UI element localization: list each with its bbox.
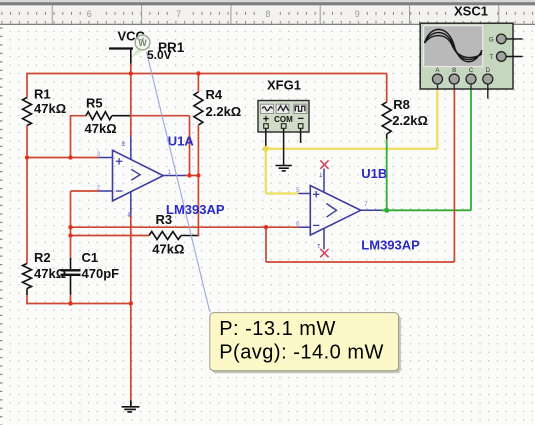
svg-text:47kΩ: 47kΩ — [85, 121, 117, 136]
wire: XFG1 COM lead — [283, 128, 285, 165]
wire: U1B plus input pin — [299, 193, 311, 195]
wire: green vertical to XSC1 C — [470, 89, 472, 210]
svg-text:R1: R1 — [34, 87, 51, 102]
pin 4 power glyph — [128, 213, 131, 217]
wire: yellow XFG plus to XSC1 A — [266, 148, 438, 150]
wire: bottom rail — [26, 303, 131, 305]
op-amp U1B — [310, 166, 420, 252]
junction: U1B output node green — [384, 208, 389, 213]
svg-text:3: 3 — [97, 151, 101, 158]
function generator XFG1 — [258, 78, 309, 133]
wire: minus input of U1A — [71, 190, 99, 192]
junction: VCC stem to top rail — [129, 71, 133, 75]
svg-text:2: 2 — [97, 185, 101, 192]
wire: left vertical upper — [27, 73, 98, 75]
unconnected pin x mark top — [320, 160, 328, 168]
svg-text:47kΩ: 47kΩ — [152, 241, 184, 256]
wire: left vertical mid — [26, 126, 28, 264]
junction: R5 branch at plus rail — [68, 155, 72, 159]
svg-text:P(avg): -14.0 mW: P(avg): -14.0 mW — [219, 342, 384, 364]
svg-text:5.0V: 5.0V — [147, 48, 172, 62]
svg-text:8: 8 — [265, 9, 270, 19]
wire: U1A pin 8 stub — [130, 136, 132, 160]
wire: yellow vertical to XSC1 A — [436, 89, 438, 149]
svg-text:C: C — [469, 67, 474, 74]
svg-text:P: -13.1 mW: P: -13.1 mW — [219, 318, 336, 340]
junction: U1A output with R4 pull-up — [196, 173, 200, 177]
pin 8 glyph — [320, 173, 323, 177]
svg-text:7: 7 — [176, 9, 181, 19]
oscilloscope XSC1 — [420, 4, 522, 89]
wire: left vertical lower to bottom rail — [26, 295, 28, 304]
pin 8 power glyph — [122, 142, 125, 146]
wire: minus bus upper horizontal — [71, 226, 299, 228]
probe PR1 — [131, 35, 185, 62]
svg-text:2.2kΩ: 2.2kΩ — [206, 104, 242, 119]
resistor R4 — [194, 74, 241, 126]
junction: minus bus to XSC1 B loop — [264, 225, 268, 229]
tooltip power readout — [210, 313, 401, 374]
wire: red vertical up to minus bus — [265, 227, 267, 262]
svg-text:47kΩ: 47kΩ — [34, 266, 66, 281]
wire: top rail — [27, 73, 387, 75]
junction: R4 top at rail — [196, 71, 200, 75]
ground symbol XFG1 — [276, 166, 292, 171]
svg-text:2.2kΩ: 2.2kΩ — [392, 113, 428, 128]
svg-text:U1B: U1B — [361, 166, 387, 181]
pin 4 glyph — [318, 245, 321, 249]
junction: U1A output with R5 feedback — [187, 173, 191, 177]
junction: R3 branch left — [68, 233, 72, 237]
resistor R8 — [382, 74, 428, 140]
wire: C1 bottom lead red — [70, 295, 72, 304]
wire: U1A pin 4 stub — [130, 192, 132, 216]
svg-text:COM: COM — [274, 115, 293, 124]
wire: VCC stem red to top rail — [130, 64, 132, 74]
wire: U1A plus input pin — [99, 157, 113, 159]
wire: U1A output pin — [163, 175, 185, 177]
wire: R3 branch lower horizontal — [71, 235, 150, 237]
junction: XFG1 plus node yellow — [263, 146, 269, 152]
svg-text:R2: R2 — [34, 250, 51, 265]
op-amp U1A — [113, 133, 225, 217]
ground symbol main — [122, 401, 140, 412]
wire: minus node vertical — [70, 191, 72, 258]
svg-text:LM393AP: LM393AP — [361, 237, 420, 252]
wire: red XSC1 B horizontal — [266, 261, 454, 263]
wire: yellow vertical down to U1B plus — [265, 149, 267, 194]
wire: R8 bottom green to output node — [386, 139, 388, 210]
svg-text:B: B — [452, 67, 456, 74]
svg-text:T: T — [489, 54, 493, 61]
svg-text:U1A: U1A — [168, 133, 195, 148]
wire: U1B output pin — [361, 209, 384, 211]
wire: XSC1 D stub — [487, 84, 489, 99]
wire: main vertical to ground — [130, 216, 132, 401]
wire: output red segment — [186, 175, 200, 177]
top ruler — [0, 0, 535, 24]
svg-text:6: 6 — [296, 221, 300, 228]
wire: U1B output green to XSC1 C corner — [381, 209, 471, 211]
svg-text:9: 9 — [355, 9, 360, 19]
wire: U1B pin 8 stub — [323, 169, 325, 193]
wire: yellow horizontal to U1B plus — [266, 192, 299, 194]
unconnected pin x mark bottom — [320, 249, 328, 257]
wire: R4 bottom lead down to R3 — [197, 125, 199, 236]
wire: plus input rail — [27, 157, 99, 159]
svg-text:D: D — [486, 67, 491, 74]
wire: VCC stem black upper — [130, 49, 132, 64]
resistor R5 — [85, 95, 131, 136]
resistor R2 — [23, 250, 67, 295]
svg-text:470pF: 470pF — [82, 266, 120, 281]
svg-text:C1: C1 — [82, 250, 99, 265]
left ruler — [0, 27, 2, 425]
svg-text:1: 1 — [168, 169, 172, 176]
svg-text:XFG1: XFG1 — [267, 78, 301, 93]
wire: R5 left lead vertical — [70, 116, 72, 158]
svg-text:6: 6 — [87, 9, 92, 19]
vcc symbol VCC — [109, 29, 146, 49]
resistor R3 — [149, 212, 199, 257]
wire: R5 left lead horizontal — [70, 115, 86, 117]
svg-text:W: W — [138, 38, 147, 48]
svg-text:R8: R8 — [393, 97, 410, 112]
resistor R1 — [23, 87, 67, 126]
wire: R5 right to feedback corner — [130, 115, 190, 117]
svg-text:47kΩ: 47kΩ — [34, 101, 66, 116]
svg-text:LM393AP: LM393AP — [166, 202, 225, 217]
svg-text:7: 7 — [364, 201, 368, 208]
capacitor C1 — [61, 250, 120, 295]
svg-text:R4: R4 — [206, 87, 223, 102]
svg-text:G: G — [489, 37, 494, 44]
junction: R1 bottom node — [25, 155, 29, 159]
probe leader line — [147, 52, 210, 312]
wire: U1B pin 4 stub — [323, 229, 325, 250]
junction: ground rail to ground wire — [129, 301, 133, 305]
wire: XFG1 plus lead — [265, 128, 267, 149]
wire: feedback vertical to output — [189, 116, 191, 176]
svg-text:XSC1: XSC1 — [454, 4, 488, 19]
wire: red XSC1 B vertical — [453, 89, 455, 262]
wire: VCC branch down to U1A pin 8 — [130, 74, 132, 136]
wire: XFG1 minus stub — [300, 128, 302, 143]
svg-text:R5: R5 — [86, 95, 103, 110]
wire: U1A minus input pin — [99, 190, 113, 192]
junction: minus bus left upper — [68, 225, 72, 229]
wire: U1B minus input pin — [299, 226, 311, 228]
junction: C1 bottom at ground rail — [68, 301, 72, 305]
